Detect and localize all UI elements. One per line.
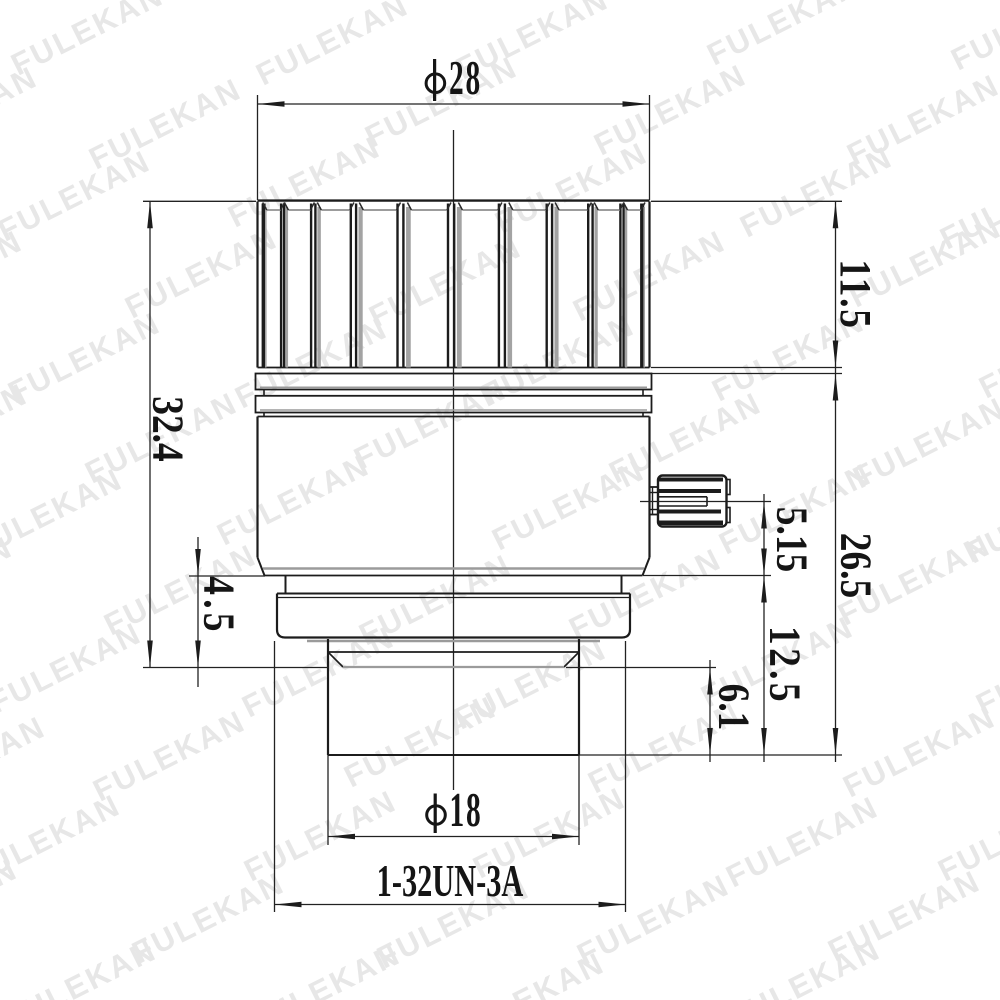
dim phi18 (327, 755, 329, 845)
label 12.5 (761, 626, 809, 705)
dim 11.5 / 26.5 shared extension (651, 200, 842, 202)
label 5.15 (768, 507, 816, 572)
label 1-32UN-3A (377, 856, 524, 907)
step between trim rings (264, 390, 643, 396)
dim 4.5 (189, 575, 265, 577)
label 32.4 (144, 396, 192, 461)
thumb screw stem (650, 487, 659, 515)
mount flange (277, 594, 630, 642)
centerline (453, 130, 455, 790)
svg-text:12.5: 12.5 (761, 626, 809, 705)
body bottom edge (265, 575, 643, 577)
dim 5.15 / 12.5 (640, 501, 771, 503)
body bottom chamfer right (643, 558, 650, 576)
upper trim ring band 1 (256, 374, 652, 390)
svg-text:28: 28 (449, 50, 482, 105)
body bottom shading (263, 567, 644, 570)
upper trim ring band 2 (256, 396, 652, 413)
dim phi28 line (258, 103, 650, 105)
dim 1-32UN-3A (274, 641, 276, 912)
svg-text:6.1: 6.1 (710, 684, 758, 731)
label phi18 (427, 782, 483, 837)
svg-text:32.4: 32.4 (144, 396, 192, 461)
label 26.5 (832, 533, 880, 598)
dim 6.1 (566, 667, 716, 669)
label phi28 (426, 50, 482, 105)
thumb screw knurled head (658, 476, 730, 527)
label 11.5 (831, 259, 879, 329)
svg-text:18: 18 (450, 782, 483, 837)
dim phi28 extension lines (257, 95, 259, 200)
svg-text:5.15: 5.15 (768, 507, 816, 572)
shared bottom extension at barrel end (579, 754, 842, 756)
flange bottom shading lip (307, 640, 600, 642)
svg-text:4.5: 4.5 (195, 576, 243, 636)
step to body (258, 413, 650, 417)
label 4.5 (195, 576, 243, 636)
knurled focus ring outline (258, 201, 650, 368)
arrowheads (258, 101, 285, 107)
dim 32.4 (143, 200, 256, 202)
svg-text:26.5: 26.5 (832, 533, 880, 598)
thread relief groove (328, 652, 579, 667)
threaded barrel (1-32UN) (328, 639, 579, 755)
svg-text:1-32UN-3A: 1-32UN-3A (377, 856, 524, 907)
body bottom chamfer left (258, 558, 265, 576)
svg-text:11.5: 11.5 (831, 259, 879, 329)
main body cylinder (258, 417, 650, 576)
neck between body and flange (286, 576, 622, 594)
label 6.1 (710, 684, 758, 731)
knurl groove and rib-face pattern (263, 203, 645, 368)
